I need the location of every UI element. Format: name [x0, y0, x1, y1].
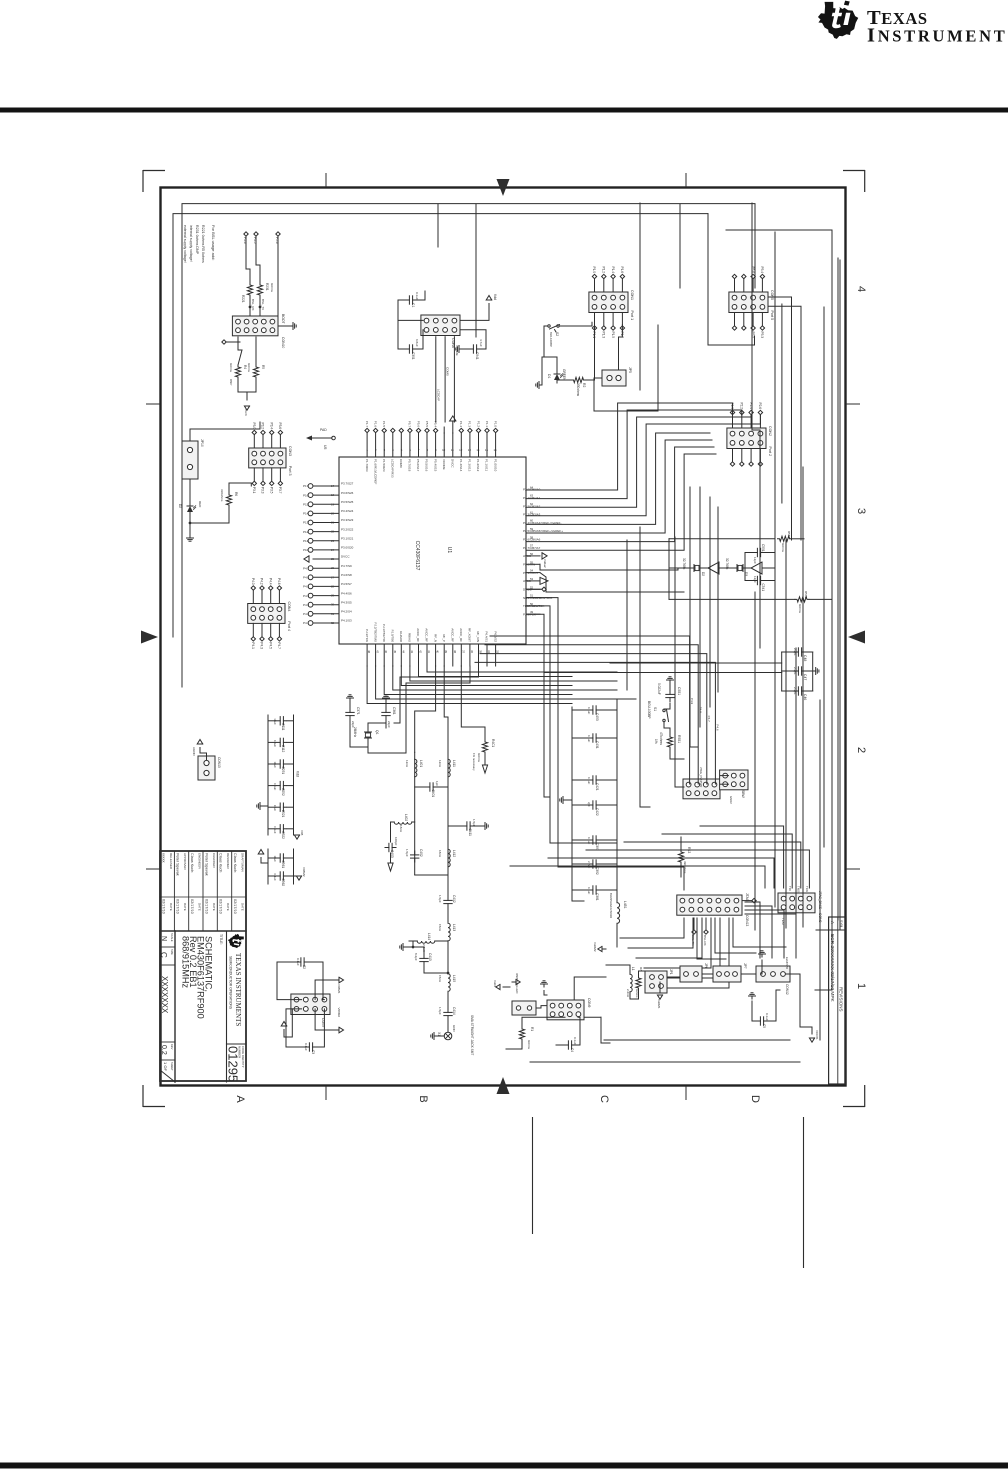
svg-text:1 OF: 1 OF — [163, 1062, 168, 1071]
svg-text:R221 0ohms R5 0ohms: R221 0ohms R5 0ohms — [201, 225, 205, 263]
svg-text:DVCC: DVCC — [341, 555, 350, 559]
svg-text:02/17/10: 02/17/10 — [219, 899, 223, 914]
svg-text:1%: 1% — [654, 739, 658, 744]
capacitor C551 0.022uF — [669, 691, 671, 695]
zone arrow left — [141, 631, 158, 644]
svg-text:46: 46 — [384, 650, 388, 654]
svg-text:8.2pF: 8.2pF — [414, 953, 418, 961]
wire long net mid B — [626, 540, 628, 690]
svg-text:24: 24 — [331, 548, 335, 552]
svg-text:L415: L415 — [452, 975, 456, 982]
svg-text:56: 56 — [530, 552, 534, 556]
wire BOOT left pins — [259, 297, 261, 316]
svg-text:VCORE: VCORE — [442, 459, 446, 470]
svg-text:57: 57 — [530, 544, 534, 548]
svg-text:JP1: JP1 — [669, 969, 673, 975]
corner tick bottom-right — [843, 1106, 865, 1108]
svg-text:P3.7/S27: P3.7/S27 — [341, 482, 354, 486]
resistor R6 330ohms — [226, 493, 231, 507]
svg-text:P3.7: P3.7 — [278, 487, 282, 494]
svg-text:VCORE: VCORE — [455, 345, 459, 356]
svg-text:R5: R5 — [261, 365, 265, 369]
wire R5 R4 — [255, 337, 257, 365]
inductor L415 15nH — [448, 974, 450, 992]
wire VCC81 — [785, 974, 812, 1034]
wire long net mid A — [639, 203, 641, 390]
svg-text:0ohms: 0ohms — [270, 283, 274, 293]
power arrow V08M2 — [339, 1027, 344, 1033]
CON1 pin stubs left — [621, 279, 623, 292]
svg-text:P4.7: P4.7 — [707, 716, 711, 723]
svg-text:Vcc6: Vcc6 — [244, 409, 248, 416]
svg-text:P1.7/R03: P1.7/R03 — [365, 459, 369, 472]
svg-text:C392: C392 — [595, 867, 599, 875]
svg-text:P4.2: P4.2 — [303, 612, 310, 616]
svg-text:C522: C522 — [281, 831, 285, 839]
svg-text:02/17/10: 02/17/10 — [161, 899, 165, 914]
svg-text:4: 4 — [855, 286, 867, 292]
wire CON9 area nets — [574, 977, 606, 1000]
svg-text:L451: L451 — [623, 901, 627, 909]
CON3 pin stubs right — [279, 468, 281, 481]
svg-text:C551: C551 — [761, 544, 765, 552]
svg-text:P1.5: P1.5 — [611, 332, 615, 339]
node P1.6 diamond — [244, 232, 248, 236]
svg-text:P4.1: P4.1 — [251, 642, 255, 649]
svg-text:V08M2: V08M2 — [302, 867, 306, 877]
resistor R4 0ohms DNP — [235, 365, 240, 379]
capacitor C1 0.1uF — [413, 299, 417, 301]
svg-text:D1: D1 — [547, 374, 551, 378]
svg-text:52: 52 — [530, 585, 534, 589]
wire long top net 3 — [823, 307, 825, 847]
svg-text:C941: C941 — [475, 352, 479, 360]
svg-text:10: 10 — [442, 448, 446, 452]
svg-text:P3.3: P3.3 — [261, 487, 265, 494]
svg-text:R6: R6 — [234, 492, 238, 496]
capacitor C402 1.5pF — [414, 851, 416, 855]
svg-text:P3.3/S23: P3.3/S23 — [341, 518, 354, 522]
svg-text:15nH: 15nH — [438, 975, 442, 982]
svg-text:XXXXXXX: XXXXXXX — [160, 976, 169, 1014]
svg-text:P4.7: P4.7 — [303, 566, 310, 570]
wire crystal loop left rail — [669, 538, 775, 540]
svg-text:P15: P15 — [303, 503, 309, 507]
svg-text:C1: C1 — [411, 303, 415, 307]
svg-text:PJ.1/TB1/TDI: PJ.1/TB1/TDI — [382, 624, 386, 642]
svg-text:54: 54 — [530, 569, 534, 573]
svg-text:C412: C412 — [452, 895, 456, 903]
inductor L412 18nH — [448, 849, 450, 867]
wire JP10 R6 D2 — [189, 479, 191, 503]
wire crystal to MCU RF_XIN — [394, 666, 479, 723]
wire C3 to CON7 — [317, 1009, 325, 1047]
svg-text:P4.2: P4.2 — [260, 578, 264, 585]
svg-text:15nH: 15nH — [438, 924, 442, 931]
wire CON13 to power jumpers — [733, 918, 786, 947]
svg-text:3: 3 — [855, 508, 867, 514]
capacitor C411 1.5pF — [470, 825, 474, 827]
power labels VddM — [598, 946, 602, 951]
crystal D2 32.768k — [700, 567, 703, 569]
svg-text:AVCC_RF: AVCC_RF — [450, 628, 454, 642]
svg-text:P1.6: P1.6 — [373, 421, 377, 428]
svg-text:A: A — [234, 1095, 246, 1103]
capacitor C431 0.1uF — [600, 737, 617, 739]
svg-text:36: 36 — [470, 650, 474, 654]
svg-text:P3.5: P3.5 — [269, 487, 273, 494]
corner tick top-left — [143, 170, 165, 172]
wire uninstalled to CON9 — [536, 1006, 547, 1008]
wire R6 to CON3 — [229, 483, 251, 493]
svg-text:C391: C391 — [595, 843, 599, 851]
svg-text:12nH: 12nH — [438, 760, 442, 767]
svg-text:10uF: 10uF — [273, 805, 277, 812]
svg-text:0.1uF: 0.1uF — [765, 1013, 769, 1021]
MCU bottom pins — [313, 485, 339, 487]
svg-text:48: 48 — [367, 650, 371, 654]
power arrow DVCC bottom — [304, 556, 309, 562]
svg-text:DNP: DNP — [229, 379, 233, 385]
capacitor C4 0.1uF — [572, 1044, 576, 1046]
svg-text:0.1uF: 0.1uF — [587, 887, 591, 894]
svg-text:P1.4: P1.4 — [611, 266, 615, 273]
zone ticks top edge — [325, 173, 327, 187]
svg-text:C: C — [159, 952, 168, 958]
svg-text:BGU-100BP: BGU-100BP — [647, 701, 651, 719]
svg-text:P1.6/R13/LCDREF: P1.6/R13/LCDREF — [373, 459, 377, 485]
svg-text:60: 60 — [530, 519, 534, 523]
svg-text:49: 49 — [530, 610, 534, 614]
CON13 stub diamonds — [752, 898, 756, 902]
svg-text:830-100BP: 830-100BP — [549, 332, 553, 347]
svg-text:47: 47 — [376, 650, 380, 654]
svg-text:BSL_TX: BSL_TX — [261, 299, 265, 310]
svg-text:TDI: TDI — [788, 886, 792, 891]
jumper block JP4 — [683, 779, 720, 799]
svg-text:1: 1 — [855, 983, 867, 989]
svg-text:SYM: SYM — [839, 920, 843, 928]
wire L1 chain — [606, 965, 630, 974]
inductor L411 12nH — [448, 759, 450, 777]
wire S2 to CON1 row — [560, 322, 593, 326]
wire bundle mid horizontals — [639, 527, 641, 807]
ground X1 — [434, 1035, 437, 1037]
svg-text:PJ.3/TCK: PJ.3/TCK — [365, 629, 369, 642]
jumper uninstalled box — [512, 1001, 536, 1015]
svg-text:L411: L411 — [452, 760, 456, 767]
svg-text:12: 12 — [459, 448, 463, 452]
capacitor C251 10uF — [287, 763, 294, 765]
title block bottom strip — [174, 931, 176, 1082]
svg-text:P2.6: P2.6 — [758, 402, 762, 409]
svg-text:19: 19 — [331, 502, 335, 506]
svg-text:P3.1/S21: P3.1/S21 — [341, 537, 354, 541]
wire R541 down — [809, 598, 832, 600]
svg-text:0.1uF: 0.1uF — [273, 783, 277, 790]
MCU right pins — [495, 644, 497, 666]
wire crystal columns — [669, 567, 686, 569]
svg-text:R1: R1 — [530, 1027, 534, 1031]
svg-text:internal supply voltage!: internal supply voltage! — [189, 225, 193, 262]
capacitor C391 0.1uF — [600, 839, 617, 841]
wire C4 — [576, 1017, 581, 1045]
svg-text:AVCC_RF: AVCC_RF — [416, 628, 420, 642]
svg-text:SCALE: SCALE — [170, 933, 174, 942]
MCU U1 CC430F6137 body — [339, 457, 526, 644]
capacitor C401 1pF — [433, 786, 437, 788]
svg-text:For BSL usage add:: For BSL usage add: — [211, 225, 216, 260]
svg-text:42: 42 — [419, 650, 423, 654]
title block divider vertical names — [160, 930, 246, 932]
svg-text:CC430F6137: CC430F6137 — [414, 541, 420, 571]
ground caps bank — [563, 799, 566, 801]
LED D2 — [189, 503, 191, 506]
svg-text:29: 29 — [331, 594, 335, 598]
svg-text:Claus Kuch: Claus Kuch — [219, 853, 223, 872]
svg-text:PJ.0/TB0: PJ.0/TB0 — [391, 630, 395, 643]
resistor R221 0ohms — [247, 283, 252, 297]
svg-text:P3.4: P3.4 — [269, 422, 273, 429]
svg-text:P3.5/S25: P3.5/S25 — [341, 500, 354, 504]
svg-text:P5.6/S17: P5.6/S17 — [416, 459, 420, 472]
svg-text:DATE: DATE — [226, 903, 230, 911]
wire left net 3 — [726, 229, 832, 231]
svg-text:15: 15 — [485, 448, 489, 452]
svg-text:P4.4: P4.4 — [303, 594, 310, 598]
svg-text:P16: P16 — [303, 493, 309, 497]
capacitor C521 10uF — [287, 806, 294, 808]
svg-text:RED: RED — [198, 501, 202, 508]
ground D2 — [189, 535, 191, 538]
wire long net right B2 — [781, 304, 783, 503]
svg-text:CON3: CON3 — [288, 446, 292, 456]
CON3 pin stubs left — [279, 435, 281, 448]
capacitor C111 10uF — [287, 720, 294, 722]
svg-text:33: 33 — [496, 650, 500, 654]
svg-text:0ohms: 0ohms — [527, 1040, 531, 1050]
svg-text:C361: C361 — [392, 707, 396, 715]
wire bottom rail A — [604, 1039, 790, 1041]
svg-text:P13: P13 — [303, 521, 309, 525]
svg-text:S2: S2 — [555, 332, 559, 336]
ground C411 — [474, 825, 482, 827]
svg-text:P5.3: P5.3 — [760, 332, 764, 339]
svg-text:C541: C541 — [761, 584, 765, 592]
wire R1 — [522, 1017, 565, 1027]
svg-text:D: D — [749, 1095, 761, 1103]
node P5.6 diamond — [276, 232, 280, 236]
capacitor C112 0.1uF — [287, 741, 294, 743]
svg-text:50: 50 — [530, 602, 534, 606]
svg-text:02/17/10: 02/17/10 — [204, 899, 208, 914]
caps bank bottom rail — [267, 715, 269, 835]
svg-text:0ohms: 0ohms — [229, 363, 233, 373]
svg-text:GND2: GND2 — [729, 796, 733, 804]
svg-text:C402: C402 — [419, 849, 423, 857]
svg-text:P4.6: P4.6 — [303, 576, 310, 580]
svg-text:DVCC: DVCC — [450, 459, 454, 468]
wire tank left node — [413, 940, 417, 942]
resistor R551b 0ohms — [778, 536, 792, 541]
wire bottom rail B — [530, 1061, 800, 1063]
zone arrow right — [848, 631, 865, 644]
zone ticks bottom edge — [325, 1086, 327, 1100]
svg-text:PJ.2/TB2/TMS: PJ.2/TB2/TMS — [373, 622, 377, 642]
svg-text:P4.6: P4.6 — [277, 578, 281, 585]
svg-text:P3.0: P3.0 — [252, 422, 256, 429]
wire balun rails join — [415, 874, 448, 876]
inductor L401 12nH — [415, 759, 417, 777]
svg-text:DATE: DATE — [198, 903, 202, 911]
sheet border — [161, 188, 846, 1086]
svg-text:C252: C252 — [281, 788, 285, 796]
connector CON3 Port 3 — [249, 448, 286, 468]
svg-text:P5.7: P5.7 — [408, 421, 412, 428]
svg-text:39: 39 — [444, 650, 448, 654]
CON2 pin stubs left — [759, 415, 761, 428]
svg-text:P1.3/S13: P1.3/S13 — [468, 459, 472, 472]
wire C5 — [768, 990, 781, 1021]
wire balun rail RF_N upper — [447, 752, 449, 875]
wire SBW to JP4 — [720, 775, 729, 777]
svg-text:C3: C3 — [311, 1050, 315, 1054]
svg-text:ECR 20XXXXXX 02/17/10 MPK: ECR 20XXXXXX 02/17/10 MPK — [829, 934, 835, 1003]
fold line right — [803, 1117, 805, 1268]
svg-text:BSL_RX: BSL_RX — [251, 299, 255, 311]
CON5 pin stubs left — [761, 279, 763, 292]
jumper block SBW — [720, 770, 748, 790]
wire long net right C — [785, 540, 787, 928]
svg-text:16: 16 — [493, 448, 497, 452]
svg-text:C47: C47 — [803, 674, 807, 680]
svg-text:P10: P10 — [303, 548, 309, 552]
wire tank loop — [409, 940, 417, 942]
svg-text:100pF: 100pF — [394, 837, 398, 846]
wire decap rails to AVCC — [617, 699, 636, 707]
svg-text:40: 40 — [436, 650, 440, 654]
CON4 pin stubs right — [278, 623, 280, 636]
svg-text:N: N — [160, 936, 167, 941]
zone ticks left edge — [146, 403, 160, 405]
svg-text:P4.3: P4.3 — [260, 642, 264, 649]
capacitor C48 2.2pF — [802, 651, 806, 653]
capacitor C361 22pF — [385, 709, 387, 713]
svg-text:P5.5: P5.5 — [425, 421, 429, 428]
svg-text:C551: C551 — [677, 687, 681, 695]
crystal Q1 26MHz — [367, 729, 369, 732]
svg-text:Port 4: Port 4 — [287, 621, 291, 631]
connector CON9 — [547, 1000, 584, 1020]
svg-text:BOOT: BOOT — [281, 314, 285, 324]
wire CON13 down bundle — [620, 918, 684, 938]
svg-text:R231: R231 — [265, 283, 269, 291]
svg-text:P1.3: P1.3 — [468, 421, 472, 428]
svg-text:GREEN: GREEN — [562, 369, 566, 381]
svg-text:13: 13 — [468, 448, 472, 452]
svg-text:P5.4/S15: P5.4/S15 — [433, 459, 437, 472]
svg-text:11: 11 — [451, 448, 454, 452]
svg-text:D2: D2 — [178, 504, 182, 508]
svg-text:R4: R4 — [243, 365, 247, 369]
fold line left — [532, 1117, 534, 1234]
wire L413 to L415 — [447, 942, 449, 974]
svg-text:VddM2: VddM2 — [593, 942, 597, 952]
connector CON7 — [291, 994, 330, 1015]
svg-text:VCC81: VCC81 — [815, 1030, 819, 1040]
connector CON2 Port 2 — [727, 428, 766, 449]
wire MCU right fanout staircase — [427, 666, 617, 672]
svg-text:Claus Kuch: Claus Kuch — [233, 853, 237, 872]
svg-text:COM0: COM0 — [399, 459, 403, 468]
svg-text:27: 27 — [331, 575, 335, 579]
inductor L402 18nH — [394, 822, 412, 824]
power arrow VCC81 — [809, 1038, 814, 1042]
svg-text:GND: GND — [452, 1025, 456, 1033]
svg-text:LCDCAP: LCDCAP — [436, 389, 440, 401]
power arrow V08M1 — [339, 977, 344, 983]
svg-text:P4.4: P4.4 — [268, 578, 272, 585]
svg-text:B: B — [417, 1095, 429, 1102]
svg-text:C5: C5 — [762, 1024, 766, 1028]
svg-text:45: 45 — [393, 650, 397, 654]
junctions BOOT — [259, 306, 261, 308]
svg-text:R551: R551 — [677, 735, 681, 743]
svg-text:P1.1/S11: P1.1/S11 — [485, 459, 489, 471]
connector CON4 Port 4 — [248, 604, 285, 624]
svg-text:38: 38 — [453, 650, 457, 654]
svg-text:TCK: TCK — [805, 886, 809, 892]
wire JP6 JP7 — [702, 973, 713, 975]
capacitor C551 12pF — [761, 552, 765, 554]
title block code ident — [227, 1043, 247, 1045]
svg-text:Peter Spevak: Peter Spevak — [176, 853, 180, 876]
resistor R2 — [572, 377, 586, 382]
zone arrow bottom — [497, 1077, 510, 1094]
wire CON3 to JP10 column — [190, 429, 252, 441]
svg-text:P1.5: P1.5 — [382, 421, 386, 428]
capacitor C422 2pF — [600, 804, 617, 806]
jumper JP6 — [680, 966, 702, 982]
svg-text:ENGINEER: ENGINEER — [198, 853, 202, 870]
svg-text:INSTRUMENTS: INSTRUMENTS — [867, 25, 1008, 47]
jumper JP10 — [182, 441, 198, 479]
caps bank rails — [616, 707, 618, 893]
svg-text:C371: C371 — [356, 707, 360, 715]
capacitor C3 0.1uF — [313, 1046, 317, 1048]
svg-text:P4.6: P4.6 — [716, 724, 720, 731]
svg-text:Claus Kuch: Claus Kuch — [190, 853, 194, 872]
svg-text:L402: L402 — [404, 814, 408, 821]
node P1.5 diamond — [254, 232, 258, 236]
buffer symbol b — [751, 562, 762, 574]
svg-text:55: 55 — [530, 560, 534, 564]
wire C1 to CON6 — [398, 300, 423, 320]
svg-text:R231 0ohms DNP: R231 0ohms DNP — [195, 225, 199, 255]
svg-text:22: 22 — [331, 530, 335, 534]
corner tick top-right — [843, 170, 865, 172]
svg-text:0ohms: 0ohms — [781, 543, 785, 553]
caps bank Vdd rail — [293, 715, 295, 835]
svg-text:1% necessary: 1% necessary — [472, 753, 476, 771]
capacitor C46 2.2pF — [802, 690, 806, 692]
svg-text:PAD: PAD — [320, 428, 327, 432]
svg-text:P3.2/S22: P3.2/S22 — [341, 527, 354, 531]
power arrow C561 left — [258, 850, 264, 855]
svg-text:02/17/10: 02/17/10 — [176, 899, 180, 914]
svg-text:P4.6/S8: P4.6/S8 — [341, 573, 352, 577]
zone ticks right edge — [846, 403, 860, 405]
